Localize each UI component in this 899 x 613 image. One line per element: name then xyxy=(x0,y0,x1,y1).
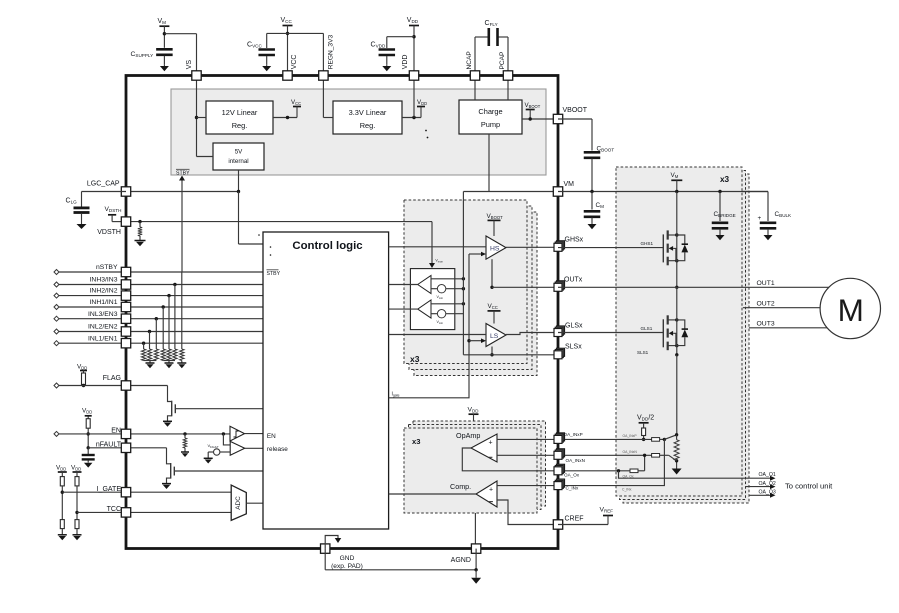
svg-text:PCAP: PCAP xyxy=(499,51,506,70)
svg-text:Vmon: Vmon xyxy=(435,259,443,264)
svg-text:Pump: Pump xyxy=(481,120,500,129)
svg-text:VM: VM xyxy=(158,18,167,25)
svg-text:CSUPPLY: CSUPPLY xyxy=(131,51,154,58)
svg-text:x3: x3 xyxy=(720,175,730,184)
svg-text:VDSTH: VDSTH xyxy=(97,229,121,236)
svg-text:M: M xyxy=(838,292,864,328)
svg-text:INL1/EN1: INL1/EN1 xyxy=(88,335,118,342)
svg-text:STBY: STBY xyxy=(176,171,190,177)
svg-text:5V: 5V xyxy=(235,149,243,156)
svg-text:OA_INxN: OA_INxN xyxy=(566,458,585,463)
svg-text:Charge: Charge xyxy=(478,107,502,116)
svg-text:VDD: VDD xyxy=(56,464,66,471)
svg-text:VDSTH: VDSTH xyxy=(105,206,122,213)
svg-text:VM: VM xyxy=(671,172,679,179)
svg-text:CREF: CREF xyxy=(565,516,584,523)
svg-text:Control logic: Control logic xyxy=(292,240,362,252)
svg-text:GLSx: GLSx xyxy=(565,323,583,330)
svg-text:I_GATE: I_GATE xyxy=(97,486,122,493)
svg-text:VDD: VDD xyxy=(468,406,480,413)
svg-text:VDD: VDD xyxy=(417,99,427,106)
svg-text:x3: x3 xyxy=(412,437,420,446)
svg-text:x3: x3 xyxy=(410,354,420,364)
svg-text:+: + xyxy=(488,440,492,447)
svg-text:+: + xyxy=(489,487,493,494)
svg-text:VDD: VDD xyxy=(77,363,87,370)
svg-text:GND: GND xyxy=(340,555,355,562)
svg-text:GHSx: GHSx xyxy=(565,237,584,244)
svg-text:CBRIDGE: CBRIDGE xyxy=(714,211,736,218)
svg-text:VDD: VDD xyxy=(407,17,419,24)
svg-text:12V Linear: 12V Linear xyxy=(222,108,258,117)
svg-text:CM: CM xyxy=(596,202,605,209)
svg-text:CVCC: CVCC xyxy=(247,42,262,49)
svg-text:+: + xyxy=(758,215,762,222)
svg-text:VCC: VCC xyxy=(291,99,301,106)
svg-text:INH3/IN3: INH3/IN3 xyxy=(90,277,118,284)
svg-text:SLSx: SLSx xyxy=(565,344,582,351)
svg-text:CVDD: CVDD xyxy=(371,42,386,49)
svg-text:VCC: VCC xyxy=(488,303,498,310)
svg-text:Vmin: Vmin xyxy=(437,295,444,300)
svg-text:OA_INxN: OA_INxN xyxy=(623,450,638,454)
svg-text:OA_O3: OA_O3 xyxy=(759,490,776,496)
svg-text:VDD: VDD xyxy=(71,464,81,471)
svg-text:CLG: CLG xyxy=(66,197,78,204)
svg-text:EN: EN xyxy=(111,427,121,434)
svg-text:CBULK: CBULK xyxy=(775,211,793,218)
svg-text:VS: VS xyxy=(186,60,193,70)
svg-text:HS: HS xyxy=(490,246,500,253)
svg-text:OA_O2: OA_O2 xyxy=(759,481,776,487)
svg-text:TCC: TCC xyxy=(107,506,121,513)
svg-text:OUT1: OUT1 xyxy=(757,280,775,287)
svg-text:OA_Ox: OA_Ox xyxy=(564,472,580,477)
svg-text:REGN_3V3: REGN_3V3 xyxy=(328,35,335,70)
svg-text:GHS1: GHS1 xyxy=(641,241,654,246)
svg-text:OA_Ox: OA_Ox xyxy=(623,474,634,478)
svg-text:C_INx: C_INx xyxy=(622,488,632,492)
svg-text:INL3/EN3: INL3/EN3 xyxy=(88,311,118,318)
svg-text:VCC: VCC xyxy=(281,17,293,24)
svg-text:nSTBY: nSTBY xyxy=(96,264,118,271)
svg-text:OA_O1: OA_O1 xyxy=(759,472,776,478)
svg-text:VBOOT: VBOOT xyxy=(487,213,504,220)
svg-text:CFLY: CFLY xyxy=(485,20,498,27)
svg-text:Vmin: Vmin xyxy=(437,320,444,325)
svg-text:GLS1: GLS1 xyxy=(641,326,653,331)
svg-text:ADC: ADC xyxy=(235,496,242,510)
svg-text:EN: EN xyxy=(267,433,276,440)
svg-text:INL2/EN2: INL2/EN2 xyxy=(88,324,118,331)
svg-text:C_INx: C_INx xyxy=(566,486,579,491)
svg-text:(exp. PAD): (exp. PAD) xyxy=(331,563,363,570)
svg-text:OA_INxP: OA_INxP xyxy=(623,434,638,438)
svg-text:OUT2: OUT2 xyxy=(757,301,775,308)
svg-text:INH1/IN1: INH1/IN1 xyxy=(90,299,118,306)
svg-text:OpAmp: OpAmp xyxy=(456,431,480,440)
svg-text:VBOOT: VBOOT xyxy=(525,102,541,109)
svg-text:Reg.: Reg. xyxy=(360,121,376,130)
svg-text:Reg.: Reg. xyxy=(232,121,248,130)
svg-text:STBY: STBY xyxy=(267,271,281,277)
svg-text:NCAP: NCAP xyxy=(466,51,473,70)
svg-text:LS: LS xyxy=(490,333,499,340)
svg-text:VFAULT: VFAULT xyxy=(208,443,219,449)
svg-text:3.3V Linear: 3.3V Linear xyxy=(349,108,387,117)
svg-text:Comp.: Comp. xyxy=(450,482,471,491)
svg-text:VDD/2: VDD/2 xyxy=(637,415,654,422)
svg-text:VCC: VCC xyxy=(291,55,298,70)
svg-text:OA_INxP: OA_INxP xyxy=(564,432,583,437)
svg-text:AGND: AGND xyxy=(451,557,471,564)
svg-text:Igate: Igate xyxy=(392,392,400,398)
svg-text:CBOOT: CBOOT xyxy=(597,146,615,153)
svg-text:VBOOT: VBOOT xyxy=(563,107,588,114)
svg-text:SLS1: SLS1 xyxy=(637,350,649,355)
svg-text:VM: VM xyxy=(564,181,575,188)
svg-text:nFAULT: nFAULT xyxy=(96,441,122,448)
svg-text:INH2/IN2: INH2/IN2 xyxy=(90,288,118,295)
svg-text:To control unit: To control unit xyxy=(785,482,833,491)
svg-text:FLAG: FLAG xyxy=(103,375,121,382)
svg-text:OUTx: OUTx xyxy=(564,277,583,284)
svg-text:LGC_CAP: LGC_CAP xyxy=(87,181,120,188)
svg-text:release: release xyxy=(267,446,288,453)
svg-text:VDD: VDD xyxy=(82,407,92,414)
svg-text:VREF: VREF xyxy=(600,507,614,514)
svg-text:internal: internal xyxy=(228,158,248,165)
svg-text:VDD: VDD xyxy=(402,55,409,70)
svg-text:OUT3: OUT3 xyxy=(757,321,775,328)
